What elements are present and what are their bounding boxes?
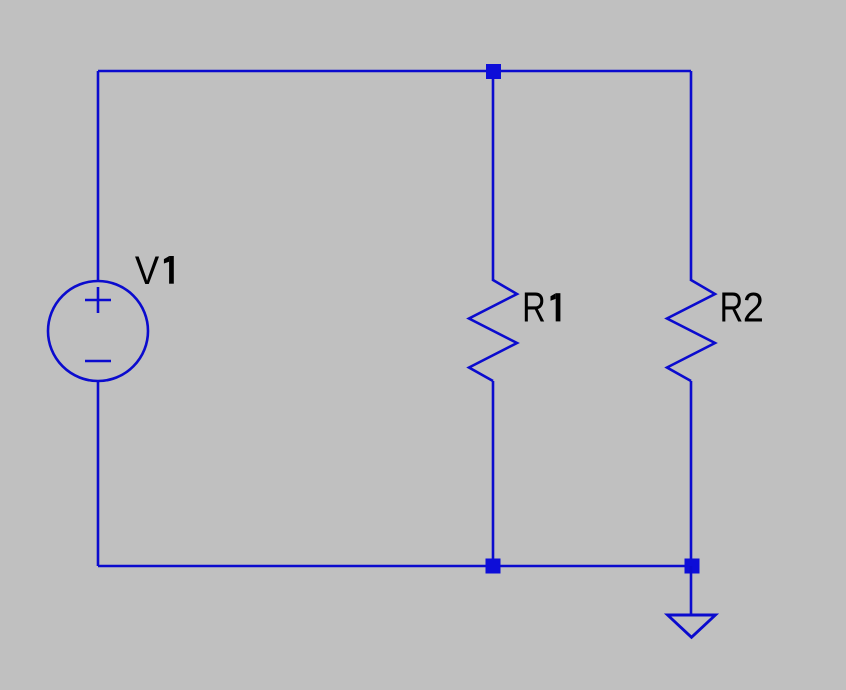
wire: left vertical from top net down to V1 positive terminal: [97, 71, 100, 281]
wire: ground lead: [690, 566, 693, 614]
resistor R2 (zigzag): [667, 280, 715, 381]
ground symbol (open triangle): [668, 615, 716, 637]
svg-text:V: V: [135, 249, 160, 293]
node junction: bottom net / R1 bottom: [486, 559, 501, 574]
wire: V1 negative terminal down to bottom net: [97, 381, 100, 566]
wire: R1 bottom lead to bottom net: [492, 381, 495, 566]
svg-text:2: 2: [743, 284, 764, 330]
svg-text:R: R: [720, 284, 744, 330]
wire: R2 branch from top-right corner down to resistor: [690, 71, 693, 281]
wire: R1 top lead from top net: [492, 71, 495, 281]
node junction: bottom net / R2 bottom / ground: [685, 559, 700, 574]
wire: bottom net from V1 to ground node: [98, 565, 692, 568]
voltage source V1 (circle body): [48, 281, 148, 381]
wire: R2 bottom lead to bottom net: [690, 381, 693, 566]
wire: top net from V1 plus to R2 top: [98, 70, 691, 73]
node junction: top net / R1 top: [486, 64, 501, 79]
V1 plus sign: [85, 287, 111, 313]
V1 minus sign: [85, 360, 111, 363]
resistor R1 (zigzag): [469, 280, 517, 381]
svg-text:R: R: [522, 285, 546, 331]
